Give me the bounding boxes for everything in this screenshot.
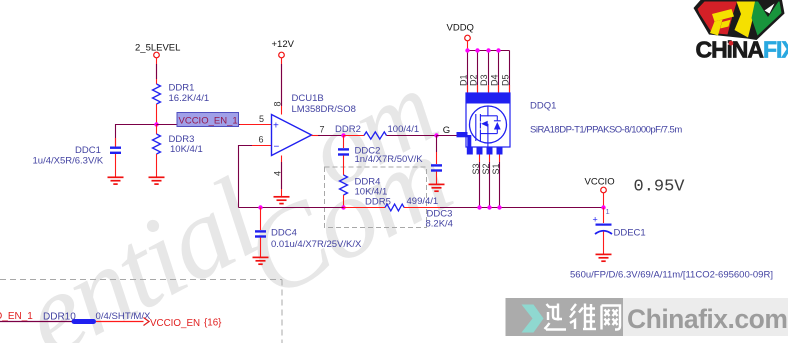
wire DDR1 to node bbox=[156, 104, 158, 125]
pin label D2 bbox=[468, 74, 478, 86]
wire DDR3 to ground bbox=[156, 154, 158, 177]
wire node G to gate tab bbox=[437, 135, 457, 137]
svg-text:DDR1: DDR1 bbox=[169, 83, 195, 94]
svg-text:DDR2: DDR2 bbox=[335, 124, 361, 135]
watermark text 1 bbox=[2, 155, 278, 343]
resistor DDR5 bbox=[365, 196, 438, 211]
svg-text:VDDQ: VDDQ bbox=[447, 23, 474, 34]
svg-text:5: 5 bbox=[259, 114, 264, 124]
resistor DDR10 (jumper bar) bbox=[43, 311, 151, 324]
svg-text:DCU1B: DCU1B bbox=[292, 93, 324, 104]
terminal 2_5LEVEL bbox=[135, 43, 180, 58]
wire op-amp output to node bbox=[312, 135, 344, 137]
wire bottom net left segment bbox=[239, 207, 344, 209]
chinafix banner CJK 维 bbox=[570, 304, 596, 330]
terminal +12V bbox=[272, 39, 295, 58]
svg-text:DDC4: DDC4 bbox=[271, 228, 297, 239]
transistor DDQ1 package bbox=[466, 93, 510, 147]
dashed page boundary bbox=[0, 280, 282, 343]
wire 2_5LEVEL to DDR1 bbox=[156, 58, 158, 84]
resistor DDR3 bbox=[153, 134, 203, 155]
transistor DDQ1 gate tab bbox=[457, 132, 468, 137]
wire junction to DDR2 bbox=[344, 135, 365, 137]
svg-text:D2: D2 bbox=[468, 74, 478, 86]
net label VCCIO_EN_1 bbox=[177, 113, 239, 127]
chinafix logo emblem bbox=[694, 0, 785, 40]
transistor DDQ1 gate drop bar bbox=[467, 135, 471, 148]
wire source S3 bbox=[477, 155, 481, 210]
ground (DDR3) bbox=[149, 177, 165, 184]
node DDR2 left junction bbox=[341, 133, 345, 137]
chinafix banner CJK 迅 bbox=[545, 304, 567, 330]
svg-text:1: 1 bbox=[606, 207, 610, 216]
svg-text:0.01u/4/X7R/25V/K/X: 0.01u/4/X7R/25V/K/X bbox=[271, 239, 362, 250]
capacitor DDC2 bbox=[338, 136, 423, 166]
wire DDR4 to bottom net bbox=[343, 195, 345, 208]
svg-text:DDR10: DDR10 bbox=[43, 312, 76, 323]
svg-text:8: 8 bbox=[273, 101, 283, 106]
svg-text:LM358DR/SO8: LM358DR/SO8 bbox=[292, 104, 356, 115]
wire node to DDR3 bbox=[156, 125, 158, 135]
wire DDC1 to ground bbox=[115, 154, 117, 177]
wire source S2 bbox=[487, 155, 491, 210]
capacitor (node G) bbox=[431, 165, 442, 170]
op-amp U1 DCU1B bbox=[272, 93, 356, 156]
dashed box bbox=[325, 167, 427, 228]
pin number 8 bbox=[273, 101, 283, 106]
wire node to op-amp pin 5 bbox=[157, 124, 272, 126]
chinafix banner dark box bbox=[506, 298, 624, 336]
ground (DDEC1) bbox=[596, 254, 612, 261]
resistor DDR1 bbox=[153, 83, 210, 105]
svg-text:−: − bbox=[274, 142, 280, 153]
wire op-amp pin 4 to ground bbox=[281, 156, 283, 197]
pin label D5 bbox=[500, 74, 510, 86]
transistor DDQ1 mosfet symbol bbox=[476, 106, 501, 147]
svg-text:DDEC1: DDEC1 bbox=[614, 228, 646, 239]
wire drain pin D4 bbox=[498, 51, 500, 94]
terminal VCCIO bbox=[585, 177, 615, 193]
wire DDC2 to DDR4 bbox=[343, 156, 345, 176]
wire DDC4 to ground bbox=[260, 238, 262, 258]
pin label S1 bbox=[491, 163, 501, 174]
wire to DDC4 bbox=[260, 208, 262, 231]
chinafix banner chevron bbox=[522, 305, 544, 333]
watermark text 2 bbox=[224, 112, 468, 322]
wire DDR10 to port bbox=[96, 321, 144, 323]
svg-text:{16}: {16} bbox=[204, 318, 222, 329]
svg-text:8.2K/4: 8.2K/4 bbox=[426, 219, 453, 230]
svg-text:+: + bbox=[593, 215, 598, 225]
pin label D1 bbox=[459, 74, 469, 86]
wire to DDEC1 bbox=[603, 208, 605, 224]
svg-text:560u/FP/D/6.3V/69/A/11m/[11CO2: 560u/FP/D/6.3V/69/A/11m/[11CO2-695600-09… bbox=[570, 270, 773, 281]
svg-text:1u/4/X5R/6.3V/K: 1u/4/X5R/6.3V/K bbox=[33, 156, 104, 167]
wire node to DDC1 bbox=[116, 125, 157, 147]
svg-text:0/4/SHT/M/X: 0/4/SHT/M/X bbox=[96, 311, 152, 322]
wire node G down to cap bbox=[436, 136, 438, 165]
watermark text 3 bbox=[289, 50, 452, 211]
pin label S2 bbox=[481, 163, 491, 174]
wire drain rail bbox=[468, 50, 510, 52]
capacitor DDEC1 bbox=[593, 215, 646, 239]
wire drain pin D2 bbox=[477, 51, 479, 94]
chinafix banner CJK 网 bbox=[602, 306, 621, 330]
svg-text:D4: D4 bbox=[489, 74, 499, 86]
svg-text:16.2K/4/1: 16.2K/4/1 bbox=[169, 93, 210, 104]
drain pin red tips bbox=[468, 85, 510, 93]
chinafix banner background bbox=[506, 298, 788, 336]
junction DDC4 bbox=[258, 205, 262, 209]
off-page connector VCCIO_EN bbox=[144, 318, 223, 330]
wire bottom left net bbox=[0, 321, 72, 323]
pin label S3 bbox=[471, 163, 481, 174]
svg-text:VCCIO_EN_1: VCCIO_EN_1 bbox=[179, 116, 238, 127]
junction dots drain rail bbox=[465, 48, 500, 52]
svg-text:+: + bbox=[273, 121, 279, 132]
node VCCIO_EN_1 junction bbox=[154, 122, 158, 126]
wire drain pin D3 bbox=[488, 51, 490, 94]
wire drain pin D1 bbox=[467, 51, 469, 94]
svg-text:VCCIO: VCCIO bbox=[585, 177, 615, 188]
svg-text:O_EN_1: O_EN_1 bbox=[0, 311, 33, 322]
wire op-amp pin 6 feedback bbox=[239, 146, 272, 208]
wire DDR2 to node G bbox=[387, 135, 437, 137]
svg-text:+12V: +12V bbox=[272, 39, 295, 50]
svg-text:D1: D1 bbox=[459, 74, 469, 86]
capacitor DDC1 bbox=[33, 145, 122, 167]
label DDC3 bbox=[426, 209, 453, 230]
svg-text:6: 6 bbox=[259, 135, 264, 145]
svg-text:499/4/1: 499/4/1 bbox=[407, 196, 439, 207]
wire VDDQ to drain rail bbox=[467, 41, 469, 51]
ground (node G cap) bbox=[429, 184, 445, 191]
svg-text:D5: D5 bbox=[500, 74, 510, 86]
node G bbox=[434, 125, 450, 138]
svg-text:7: 7 bbox=[320, 125, 325, 135]
pin label D3 bbox=[479, 74, 489, 86]
wire +12V to op-amp pin 8 bbox=[281, 58, 283, 115]
wire source S1 bbox=[497, 155, 501, 210]
resistor DDR4 bbox=[340, 175, 388, 198]
svg-text:DDQ1: DDQ1 bbox=[530, 101, 556, 112]
svg-text:1n/4/X7R/50V/K: 1n/4/X7R/50V/K bbox=[355, 154, 424, 165]
svg-text:0.95V: 0.95V bbox=[634, 178, 686, 197]
svg-text:G: G bbox=[443, 125, 450, 136]
resistor DDR2 bbox=[335, 124, 419, 139]
wire junction to DDR5 bbox=[344, 207, 386, 209]
node VCCIO junction bbox=[601, 205, 605, 209]
svg-text:D3: D3 bbox=[479, 74, 489, 86]
svg-text:SiRA18DP-T1/PPAKSO-8/1000pF/7.: SiRA18DP-T1/PPAKSO-8/1000pF/7.5m bbox=[530, 125, 682, 136]
svg-text:VCCIO_EN: VCCIO_EN bbox=[150, 318, 200, 329]
chinafix logo wordmark bbox=[696, 37, 788, 63]
svg-text:CHiNAFIX: CHiNAFIX bbox=[696, 37, 788, 63]
wire DDR5 to VCCIO net bbox=[404, 207, 604, 209]
svg-text:Chinafix.com: Chinafix.com bbox=[627, 304, 787, 334]
ground (DDC1) bbox=[108, 177, 124, 184]
ground (DDC4) bbox=[253, 257, 269, 264]
svg-text:DDC1: DDC1 bbox=[75, 145, 101, 156]
wire VCCIO to net bbox=[603, 193, 605, 208]
pin label D4 bbox=[489, 74, 499, 86]
capacitor DDC4 bbox=[255, 228, 362, 251]
terminal VDDQ bbox=[447, 23, 474, 41]
wire DDEC1 to ground bbox=[603, 232, 605, 255]
wire cap to ground bbox=[436, 172, 438, 185]
labels DDQ1 bbox=[530, 101, 682, 136]
svg-text:100/4/1: 100/4/1 bbox=[388, 124, 420, 135]
pin number 4 bbox=[273, 171, 283, 176]
junction DDR4 bottom bbox=[341, 205, 345, 209]
ground (op-amp) bbox=[274, 197, 290, 204]
wire drain pin D5 bbox=[509, 51, 511, 94]
transistor DDQ1 source tabs bbox=[467, 147, 503, 155]
svg-text:10K/4/1: 10K/4/1 bbox=[170, 144, 203, 155]
svg-text:DDR5: DDR5 bbox=[365, 197, 391, 208]
